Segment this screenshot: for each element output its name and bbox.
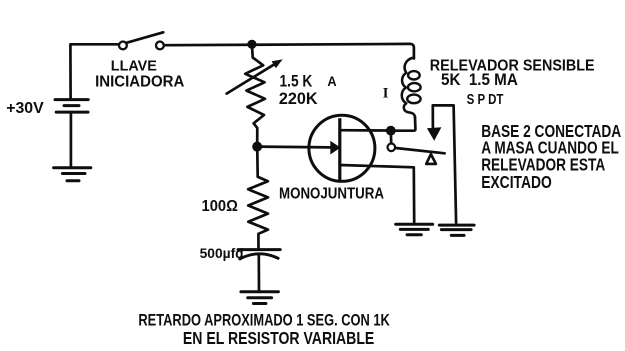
svg-text:EN EL RESISTOR VARIABLE: EN EL RESISTOR VARIABLE <box>183 328 374 348</box>
svg-text:500µfd: 500µfd <box>200 245 244 261</box>
svg-text:100Ω: 100Ω <box>202 198 239 215</box>
svg-text:220K: 220K <box>279 90 318 108</box>
svg-text:I: I <box>383 86 389 102</box>
svg-text:5K 1.5 MA: 5K 1.5 MA <box>441 71 518 89</box>
svg-text:EXCITADO: EXCITADO <box>481 172 552 192</box>
svg-text:A: A <box>327 74 336 89</box>
svg-text:LLAVE: LLAVE <box>111 58 157 75</box>
svg-text:1.5 K: 1.5 K <box>280 72 313 91</box>
svg-text:+30V: +30V <box>6 100 44 117</box>
svg-text:INICIADORA: INICIADORA <box>95 73 185 90</box>
svg-text:MONOJUNTURA: MONOJUNTURA <box>279 186 384 203</box>
svg-text:S P DT: S P DT <box>467 92 504 108</box>
svg-text:RETARDO APROXIMADO 1 SEG. CON: RETARDO APROXIMADO 1 SEG. CON 1K <box>138 310 390 329</box>
